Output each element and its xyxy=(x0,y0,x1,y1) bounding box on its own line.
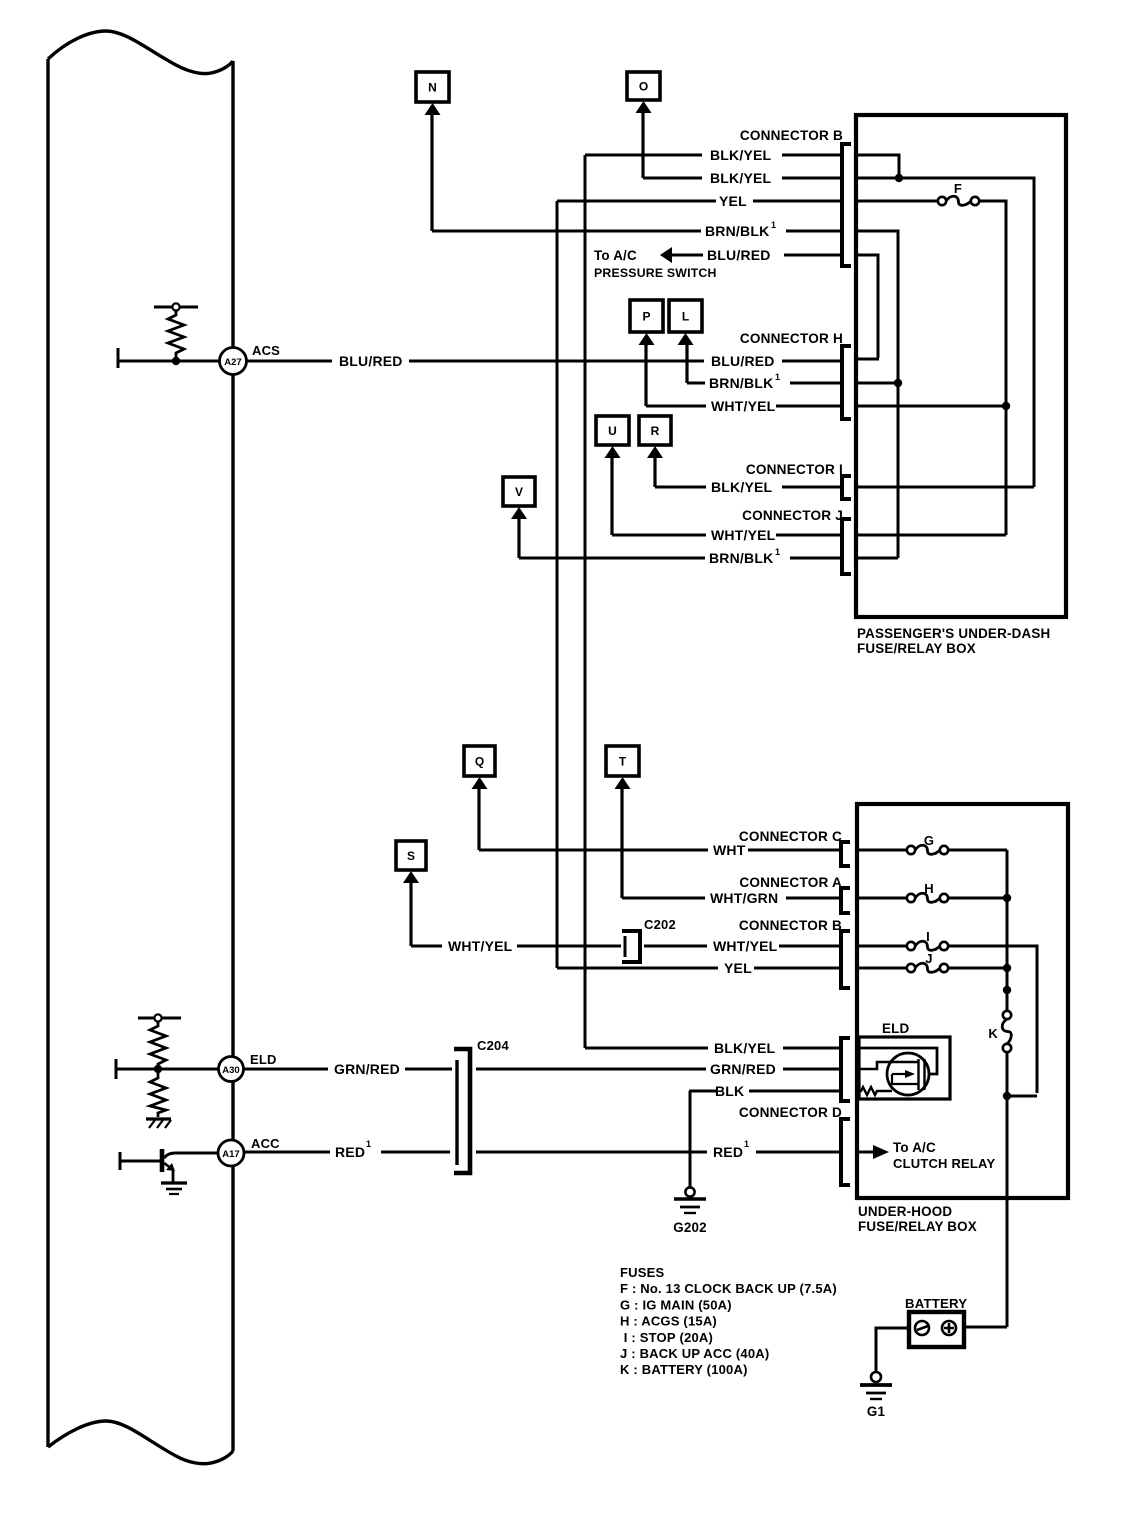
svg-text:CONNECTOR D: CONNECTOR D xyxy=(739,1105,842,1120)
connector arrow box V xyxy=(503,477,535,519)
connector H bracket xyxy=(842,346,851,419)
wire RED to connector D xyxy=(245,1151,330,1154)
wire: internal lead to A30 xyxy=(116,1068,220,1071)
wire BLK/YEL row2 inside box to vertical xyxy=(856,178,1034,487)
wire GRN/RED from A30 to C204 xyxy=(244,1068,328,1071)
svg-text:H : ACGS (15A): H : ACGS (15A) xyxy=(620,1314,717,1329)
connector arrow box S xyxy=(396,841,426,883)
ground under transistor Q1 xyxy=(161,1181,187,1184)
svg-text:FUSES: FUSES xyxy=(620,1265,664,1280)
open terminal circle on R-A27 rail xyxy=(172,303,179,310)
fuse K (battery 100A) xyxy=(1003,1011,1011,1019)
wire BLK/YEL (from R) to connector I xyxy=(655,486,706,489)
connector arrow box T xyxy=(606,746,639,789)
battery positive terminal xyxy=(942,1321,956,1335)
wire: control-unit harness column right edge xyxy=(231,61,234,1451)
wire fuse I to inner vertical xyxy=(948,946,1037,1093)
fuse J xyxy=(907,964,915,972)
wire WHT/YEL inside box (connector J) xyxy=(856,534,1006,537)
fuse F xyxy=(938,197,946,205)
svg-text:S: S xyxy=(407,849,415,863)
wire battery negative to ground G1 xyxy=(876,1328,909,1372)
wire WHT/YEL (from P) to connector H xyxy=(646,405,706,408)
svg-text:CONNECTOR B: CONNECTOR B xyxy=(740,128,843,143)
svg-text:ELD: ELD xyxy=(250,1052,277,1067)
wire BLU/RED inside box (connector H side) xyxy=(856,358,879,361)
wire BLU/RED to connector B with arrow to A/C pressure switch xyxy=(660,247,672,263)
transistor Q1 emitter with arrow xyxy=(164,1163,172,1169)
svg-text:1: 1 xyxy=(775,372,780,382)
ground G202 xyxy=(685,1187,694,1196)
wire: control-unit harness column left edge xyxy=(46,59,49,1447)
wire BLK with shunt to ELD xyxy=(689,1090,716,1093)
wire BLK/YEL row1 inside box xyxy=(856,155,899,178)
svg-text:CONNECTOR J: CONNECTOR J xyxy=(742,508,843,523)
svg-text:ELD: ELD xyxy=(882,1021,910,1036)
wire WHT/YEL (from U) to connector J xyxy=(612,534,706,537)
in-line connector C202 xyxy=(622,931,640,962)
svg-text:A27: A27 xyxy=(224,357,241,368)
connector arrow box N xyxy=(416,72,449,115)
wire from transistor Q1 collector to A17 xyxy=(164,1153,218,1158)
svg-text:UNDER-HOOD: UNDER-HOOD xyxy=(858,1204,952,1219)
svg-text:A30: A30 xyxy=(222,1065,239,1076)
svg-text:CONNECTOR H: CONNECTOR H xyxy=(740,331,843,346)
svg-text:1: 1 xyxy=(775,547,780,557)
junction dot battery feed xyxy=(1003,986,1011,994)
svg-text:G202: G202 xyxy=(673,1220,707,1235)
wire: internal lead to A27 xyxy=(118,360,222,363)
ground G1 xyxy=(871,1372,881,1382)
connector C bracket xyxy=(841,842,850,866)
svg-text:U: U xyxy=(608,424,617,438)
wire WHT (from Q) to connector C xyxy=(479,849,708,852)
terminal tick at base lead xyxy=(119,1152,122,1170)
wire: harness column torn bottom edge xyxy=(48,1421,233,1464)
wire BRN/BLK inside box (connector J) xyxy=(856,557,898,560)
connector D bracket xyxy=(841,1119,850,1185)
svg-text:To A/C: To A/C xyxy=(594,248,637,263)
wire P to WHT/YEL xyxy=(644,344,647,406)
svg-text:J : BACK UP ACC (40A): J : BACK UP ACC (40A) xyxy=(620,1346,769,1361)
svg-text:WHT: WHT xyxy=(713,842,746,858)
wire: harness column torn top edge xyxy=(48,31,233,74)
wire WHT/YEL inside box to fuse I xyxy=(857,945,907,948)
wire BRN/BLK (from V) to connector J xyxy=(519,557,705,560)
svg-text:T: T xyxy=(619,755,627,769)
wire BLK/YEL row1 to connector B xyxy=(585,154,702,157)
ELD MOSFET channel bar xyxy=(923,1059,925,1090)
wire BLU/RED from A27 to connector H xyxy=(247,360,332,363)
fuse G xyxy=(907,846,915,854)
svg-text:WHT/YEL: WHT/YEL xyxy=(711,398,776,414)
svg-text:CONNECTOR B: CONNECTOR B xyxy=(739,918,842,933)
wire O to BLK/YEL xyxy=(641,112,644,178)
resistor R-A30 lower zigzag to ground xyxy=(150,1071,166,1117)
wire fuse G to battery vertical xyxy=(948,849,1007,852)
wire WHT/YEL (from S) through C202 to connector B xyxy=(411,945,442,948)
terminal tick at internal lead A30 xyxy=(115,1059,118,1079)
wire T to WHT/GRN connector A xyxy=(620,788,623,898)
resistor R-A27 pull-up top rail xyxy=(154,306,198,309)
svg-text:1: 1 xyxy=(771,220,776,230)
svg-text:BLK/YEL: BLK/YEL xyxy=(711,479,773,495)
junction dot fuse I branch joins battery wire xyxy=(1003,1092,1011,1100)
fuse H xyxy=(907,894,915,902)
svg-text:BRN/BLK: BRN/BLK xyxy=(709,375,773,391)
svg-text:I : STOP (20A): I : STOP (20A) xyxy=(620,1330,713,1345)
svg-text:K: K xyxy=(988,1026,998,1041)
ELD MOSFET gate bar xyxy=(917,1059,919,1090)
UNDER-HOOD FUSE/RELAY BOX outline xyxy=(857,804,1068,1198)
battery feed vertical inside box xyxy=(1006,850,1009,1011)
wire BLK/YEL to ELD xyxy=(585,1047,708,1050)
connector arrow box U xyxy=(596,416,629,458)
svg-text:C202: C202 xyxy=(644,917,676,932)
connector J bracket xyxy=(842,519,851,574)
wire fuse H to vertical xyxy=(948,897,1003,900)
ELD connector bracket xyxy=(841,1038,850,1101)
svg-text:C204: C204 xyxy=(477,1038,509,1053)
svg-text:WHT/YEL: WHT/YEL xyxy=(713,938,778,954)
svg-text:Q: Q xyxy=(475,755,484,769)
wire R to BLK/YEL connector I xyxy=(653,457,656,487)
connector I bracket xyxy=(842,476,851,499)
svg-text:CLUTCH RELAY: CLUTCH RELAY xyxy=(893,1156,995,1171)
svg-text:GRN/RED: GRN/RED xyxy=(710,1061,776,1077)
svg-text:BLK: BLK xyxy=(715,1083,744,1099)
wire L to BRN/BLK xyxy=(685,344,688,383)
svg-text:BATTERY: BATTERY xyxy=(905,1296,967,1311)
terminal tick at internal lead A27 xyxy=(117,348,120,368)
ELD internal drain path from BLK/YEL xyxy=(859,1048,937,1074)
wire WHT/YEL inside box (connector H) xyxy=(856,405,1005,408)
svg-text:ACS: ACS xyxy=(252,343,280,358)
svg-text:A17: A17 xyxy=(222,1149,239,1160)
connector B bracket (under-hood) xyxy=(841,931,850,988)
wire WHT inside box to fuse G xyxy=(857,849,907,852)
wire BRN/BLK to connector B xyxy=(432,230,701,233)
svg-text:RED: RED xyxy=(713,1144,743,1160)
svg-text:1: 1 xyxy=(744,1139,749,1149)
svg-text:BLU/RED: BLU/RED xyxy=(707,247,771,263)
svg-text:WHT/YEL: WHT/YEL xyxy=(711,527,776,543)
svg-text:K : BATTERY (100A): K : BATTERY (100A) xyxy=(620,1362,748,1377)
transistor Q1 base lead xyxy=(120,1160,160,1163)
connector arrow box P xyxy=(630,300,663,345)
wire YEL to connector B under-hood xyxy=(557,967,718,970)
wire BLK to ground G202 xyxy=(689,1091,692,1188)
resistor R-A30 upper zigzag xyxy=(150,1021,166,1068)
wire WHT/GRN inside box to fuse H xyxy=(857,897,907,900)
svg-text:F : No. 13 CLOCK BACK UP (7.5A: F : No. 13 CLOCK BACK UP (7.5A) xyxy=(620,1281,837,1296)
fuse I xyxy=(907,942,915,950)
svg-text:FUSE/RELAY BOX: FUSE/RELAY BOX xyxy=(857,641,976,656)
svg-text:G : IG MAIN (50A): G : IG MAIN (50A) xyxy=(620,1297,732,1312)
svg-text:H: H xyxy=(924,881,934,896)
transistor Q1 base bar xyxy=(160,1149,165,1172)
wire GRN/RED to ELD gate xyxy=(476,1068,706,1071)
wire fuse I branch corner xyxy=(1007,1095,1037,1098)
svg-text:V: V xyxy=(515,485,523,499)
ELD outer case xyxy=(859,1037,950,1099)
svg-text:YEL: YEL xyxy=(719,193,747,209)
svg-text:BLU/RED: BLU/RED xyxy=(711,353,775,369)
chassis ground under R-A30 xyxy=(146,1117,171,1120)
ELD source arrow xyxy=(892,1073,906,1075)
wire BLU/RED inside box loop to connector H xyxy=(856,255,878,358)
in-line connector C204 xyxy=(454,1049,470,1173)
wire V to BRN/BLK connector J xyxy=(517,518,520,558)
svg-text:YEL: YEL xyxy=(724,960,752,976)
wire YEL to connector B xyxy=(557,200,716,203)
connector arrow box O xyxy=(627,72,660,113)
wire emitter to ground xyxy=(172,1170,175,1182)
battery box xyxy=(909,1312,964,1347)
svg-text:BRN/BLK: BRN/BLK xyxy=(709,550,773,566)
svg-text:O: O xyxy=(639,80,648,94)
wire fuse F to vertical xyxy=(979,201,1006,535)
connector B bracket (under-dash) xyxy=(842,144,851,266)
svg-text:BLK/YEL: BLK/YEL xyxy=(710,147,772,163)
svg-text:BLU/RED: BLU/RED xyxy=(339,353,403,369)
wire U to WHT/YEL connector J xyxy=(610,457,613,535)
svg-text:CONNECTOR C: CONNECTOR C xyxy=(739,829,842,844)
svg-text:L: L xyxy=(682,310,689,324)
ELD sensor circle xyxy=(887,1053,929,1095)
svg-text:To A/C: To A/C xyxy=(893,1140,936,1155)
junction dot WHT/YEL vertical xyxy=(1002,402,1010,410)
wire S to WHT/YEL connector B xyxy=(409,882,412,946)
junction dot fuse J to battery vertical xyxy=(1003,964,1011,972)
junction dot R-A27 to wire xyxy=(172,357,180,365)
connector A bracket xyxy=(841,888,850,913)
wire BRN/BLK inside box vertical xyxy=(856,231,898,558)
connector arrow box R xyxy=(639,416,671,458)
open terminal circle on R-A30 rail xyxy=(154,1014,161,1021)
svg-text:WHT/GRN: WHT/GRN xyxy=(710,890,778,906)
ELD shunt resistor zigzag xyxy=(859,1087,892,1095)
resistor R-A30 top rail xyxy=(138,1017,181,1020)
wire BRN/BLK inside box (connector H) xyxy=(856,382,897,385)
wire BLK/YEL row2 (from O) to connector B xyxy=(643,177,702,180)
svg-text:F: F xyxy=(954,181,962,196)
wire vertical BLK/YEL feed (dash B to ELD) xyxy=(584,155,587,1048)
svg-text:BLK/YEL: BLK/YEL xyxy=(714,1040,776,1056)
svg-text:BLK/YEL: BLK/YEL xyxy=(710,170,772,186)
svg-text:G: G xyxy=(924,833,934,848)
svg-text:CONNECTOR A: CONNECTOR A xyxy=(739,875,842,890)
svg-text:J: J xyxy=(925,951,932,966)
junction dot BLK/YEL rows xyxy=(895,174,903,182)
battery negative terminal xyxy=(915,1321,929,1335)
svg-text:N: N xyxy=(428,81,437,95)
wire battery positive to fuse box xyxy=(964,1326,1007,1329)
svg-text:P: P xyxy=(642,310,650,324)
svg-text:RED: RED xyxy=(335,1144,365,1160)
svg-text:WHT/YEL: WHT/YEL xyxy=(448,938,513,954)
svg-text:R: R xyxy=(651,424,660,438)
junction dot BRN/BLK vertical at connector H xyxy=(894,379,902,387)
svg-text:FUSE/RELAY BOX: FUSE/RELAY BOX xyxy=(858,1219,977,1234)
svg-text:PASSENGER'S UNDER-DASH: PASSENGER'S UNDER-DASH xyxy=(857,626,1050,641)
wire Q to WHT connector C xyxy=(477,788,480,850)
svg-text:1: 1 xyxy=(366,1139,371,1149)
wire BRN/BLK (from L) to connector H xyxy=(687,382,705,385)
wire WHT/GRN (from T) to connector A xyxy=(622,897,705,900)
svg-text:GRN/RED: GRN/RED xyxy=(334,1061,400,1077)
wire YEL inside box to fuse F xyxy=(856,200,938,203)
svg-text:PRESSURE SWITCH: PRESSURE SWITCH xyxy=(594,266,717,280)
wire fuse K down to battery xyxy=(1006,1052,1009,1327)
node A17 circle xyxy=(218,1140,244,1166)
svg-text:I: I xyxy=(926,929,930,944)
wire YEL inside box to fuse J xyxy=(857,967,907,970)
svg-text:ACC: ACC xyxy=(251,1136,280,1151)
svg-text:G1: G1 xyxy=(867,1404,886,1419)
wire BLK/YEL inside box (connector I) xyxy=(856,486,1034,489)
wire fuse J to vertical xyxy=(948,967,1003,970)
junction dot fuse H to battery vertical xyxy=(1003,894,1011,902)
PASSENGER'S UNDER-DASH FUSE/RELAY BOX outline xyxy=(856,115,1066,617)
junction dot R-A30 to wire xyxy=(154,1065,162,1073)
node A27 circle xyxy=(220,348,247,375)
svg-text:BRN/BLK: BRN/BLK xyxy=(705,223,769,239)
wire N to BRN/BLK xyxy=(430,114,433,231)
resistor R-A27 zigzag xyxy=(168,310,184,359)
node A30 circle xyxy=(219,1057,244,1082)
connector arrow box Q xyxy=(464,746,495,789)
connector arrow box L xyxy=(669,300,702,345)
wire To A/C CLUTCH RELAY with arrow xyxy=(857,1151,874,1154)
wire vertical YEL feed (dash B to under-hood B) xyxy=(556,201,559,968)
svg-text:CONNECTOR I: CONNECTOR I xyxy=(746,462,843,477)
